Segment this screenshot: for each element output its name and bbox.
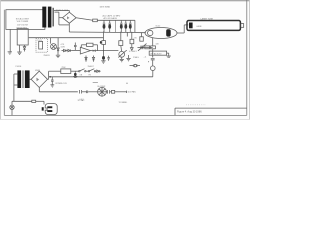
resistor R1 [93,19,98,22]
diode D8 [96,70,101,72]
capacitor C12 [73,71,77,77]
wire V1 anode [177,25,188,33]
transformer T2 [17,70,29,88]
wire inner [9,29,11,51]
wire T1 sec b [55,12,70,25]
resistor R2 [37,40,42,49]
pot VR1 [118,50,127,57]
resistor R7 chain3 [130,32,134,50]
wire BR2 left [30,78,32,80]
resistor R8 grid [140,32,144,41]
wire mid rail [29,37,104,39]
wire V1 cathode pin [152,37,154,46]
svg-text:TO PANEL: TO PANEL [119,101,128,104]
plug J1 [10,101,14,115]
label cap bank [103,14,121,20]
ground G3 [56,51,60,58]
capacitor C5 [129,20,132,32]
wire T2 primary [14,74,18,101]
capacitor C3 [120,20,123,32]
svg-text:+ 4: + 4 [144,57,147,59]
bridge BR2 [31,71,47,87]
wire switch row [49,70,61,72]
wire T1 sec a [54,10,69,12]
wire HV bus [97,20,135,32]
transformer box T1 [6,10,45,30]
resistor R10 [61,67,71,74]
svg-text:SOLA CONST: SOLA CONST [16,18,30,21]
lamp DS1 [151,66,156,71]
svg-text:Figure 4. Aug 30 1986: Figure 4. Aug 30 1986 [177,110,202,113]
ground G5 [126,55,130,61]
label chain [129,51,146,58]
svg-text:60: 60 [126,83,128,85]
capacitor C4 [124,20,127,32]
fuse F1 [32,100,44,104]
regulator U2 [17,29,28,45]
label R3 [61,44,65,48]
wire to bus [152,71,154,77]
label bus [56,83,98,85]
resistor R6 chain2 [119,32,123,51]
node dot [152,56,153,57]
capacitor C8 [102,56,105,61]
wire drop a [126,32,128,37]
wire BR1 out [76,18,93,20]
svg-text:2 MEG: 2 MEG [133,57,139,59]
diode D2 [62,49,68,51]
capacitor C10 [130,64,141,67]
svg-text:INTERLOCK: INTERLOCK [56,83,68,85]
svg-text:0.1 600 V: 0.1 600 V [129,51,137,53]
capacitor C13 [50,77,54,87]
wire opamp out [91,50,119,52]
thyratron V1 [145,28,177,39]
wire rail drop b [57,38,59,47]
svg-text:2N3055: 2N3055 [44,55,50,57]
diode D3 [68,49,72,51]
laser tube LT1 [187,21,244,31]
wire opamp in [72,50,80,52]
blower B1 [97,87,106,96]
ground G2 [17,52,22,54]
ground G4 [101,61,105,63]
svg-text:115 V 60 HZ: 115 V 60 HZ [17,24,29,26]
title block [175,105,247,116]
ground G1 [8,52,12,54]
heater row left [80,90,98,94]
wire junction [115,20,117,32]
resistor R5 chain1 [100,32,106,56]
resistor R9 [138,44,171,58]
switch S2 [86,69,96,77]
svg-text:LASER TUBE: LASER TUBE [201,17,214,20]
capacitor C6 [74,43,77,51]
svg-text:1N4007: 1N4007 [88,66,94,68]
zener D4 [57,46,59,52]
transistor Q1 [51,44,57,50]
wire lower bus [69,31,146,34]
svg-text:640B: 640B [197,26,202,28]
wire U2 lead a [19,45,21,52]
capacitor C9 [120,57,124,62]
small parts row [148,61,149,62]
wire BR2 right [48,71,49,79]
wire BR2 bottom [39,88,78,92]
wire bottom bus [49,76,153,78]
diode D5 [93,50,96,52]
wire rail drop a [50,38,52,44]
bridge BR1 [63,12,77,23]
diode D1 [23,45,25,52]
box ref sub-circuit [36,38,47,52]
svg-text:115 VAC: 115 VAC [78,99,86,102]
label U2 [16,24,29,29]
op-amp U1 [80,47,90,54]
heater row right [106,90,126,94]
capacitor C11 [151,59,155,66]
capacitor C1 [103,20,106,32]
node dot bus [49,76,51,78]
capacitor C2 [108,20,111,32]
wire AC in [12,100,32,102]
svg-text:115V FAN: 115V FAN [128,90,137,93]
diode pair D7 [92,56,94,62]
wire BR1 neg [68,23,70,32]
capacitor C7 [107,56,109,61]
wire chain down [152,49,154,57]
svg-text:1/2W: 1/2W [61,46,65,48]
svg-text:P-6134: P-6134 [16,66,22,68]
svg-text:VOLT XFMR: VOLT XFMR [17,21,29,23]
svg-text:10KV 30MA: 10KV 30MA [100,5,111,8]
transformer T1 [42,7,53,28]
switch S1 [71,69,86,77]
label T1 [16,18,30,24]
connector P1 [42,104,58,115]
svg-text:AT 6 KV EACH: AT 6 KV EACH [104,17,118,20]
node dots bus [103,31,104,32]
feedback resistor R4 [81,43,97,50]
diode pair D6 [85,56,87,62]
